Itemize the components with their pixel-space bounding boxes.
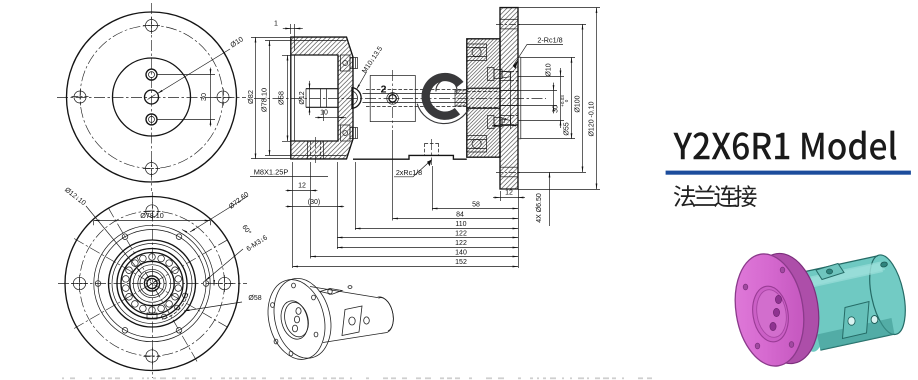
svg-text:0: 0 <box>564 99 569 102</box>
C logo watermark <box>422 73 464 120</box>
end cap <box>863 252 911 338</box>
dim 10 cavity depth <box>315 117 323 119</box>
shaft collar left of rotor <box>455 90 467 106</box>
svg-text:122: 122 <box>455 231 467 238</box>
label 2-Rc1/8 <box>513 45 563 67</box>
svg-text:M8X1.25P: M8X1.25P <box>254 167 289 176</box>
svg-text:2-Rc1/8: 2-Rc1/8 <box>537 36 562 45</box>
side plate <box>843 302 870 339</box>
bearing inner race <box>130 261 174 305</box>
anti-rotation tab <box>147 313 157 319</box>
chain 152 <box>293 266 518 268</box>
svg-text:84: 84 <box>456 211 464 218</box>
angle 60 <box>182 230 214 286</box>
dia12 dim in cavity <box>309 81 311 89</box>
iso end cap arc <box>379 298 394 331</box>
shaft bore <box>144 276 159 291</box>
svg-text:30: 30 <box>553 105 560 113</box>
left vertical dims <box>251 37 291 39</box>
shaft between housing and rotor <box>363 93 467 95</box>
leader dia12 depth 10 <box>86 206 142 274</box>
M8 port slot in bottom band <box>308 141 324 159</box>
svg-text:Ø78.10: Ø78.10 <box>260 88 269 112</box>
centerline horizontal <box>57 97 246 99</box>
main centerline <box>254 98 546 100</box>
view B: rear bearing-side circular view <box>58 187 269 378</box>
flange plate hatched <box>500 8 518 189</box>
svg-text:Ø58: Ø58 <box>277 91 286 105</box>
svg-text:12: 12 <box>505 190 513 197</box>
dim 12 flange thickness (left) <box>292 162 294 268</box>
flange outer circle <box>67 12 237 182</box>
small isometric outline drawing <box>260 272 393 365</box>
blue divider rule <box>666 171 911 175</box>
svg-text:110: 110 <box>455 221 466 228</box>
body outline edges <box>804 256 895 350</box>
step circle <box>112 244 192 324</box>
nozzle fitting top <box>488 68 511 81</box>
dim 30 vertical <box>158 74 216 76</box>
bolt holes x4 <box>146 205 158 217</box>
bearing balls x18 <box>175 276 182 283</box>
svg-text:12: 12 <box>298 183 306 190</box>
iso bolt holes <box>292 283 296 288</box>
dim 1 top <box>290 24 292 34</box>
svg-text:Ø120 -0.10: Ø120 -0.10 <box>589 101 596 136</box>
rotor block hatched <box>467 39 500 157</box>
subtitle 法兰连接 <box>674 185 757 207</box>
retainer dashed arc <box>162 294 188 320</box>
cavity top/bottom thin lines <box>291 40 347 42</box>
svg-text:58: 58 <box>472 201 480 208</box>
right flange dims <box>518 7 600 9</box>
flange rim thickness <box>744 249 827 369</box>
chain 58 <box>432 166 434 211</box>
rotor center bore white <box>467 88 500 108</box>
svg-text:1: 1 <box>274 21 278 28</box>
brush gland top <box>341 55 351 71</box>
Rc1/8 hidden thread <box>424 143 426 155</box>
svg-text:4X Ø6.50: 4X Ø6.50 <box>536 193 543 223</box>
view A: front flange circular view <box>57 3 246 191</box>
diagonal centerlines <box>74 239 230 329</box>
right 12 dim (flange) <box>500 191 502 201</box>
svg-text:Ø55: Ø55 <box>564 122 571 135</box>
top plate <box>816 264 844 280</box>
port hole top <box>146 69 157 80</box>
iso 3 holes <box>296 308 301 315</box>
svg-text:140: 140 <box>455 249 467 256</box>
port block (2) <box>370 76 415 122</box>
iso side port <box>364 317 370 324</box>
svg-text:Ø12: Ø12 <box>299 91 306 104</box>
shaft hole in right wall <box>306 89 338 107</box>
3 holes <box>775 295 781 303</box>
svg-text:10: 10 <box>320 110 328 117</box>
chain 84 <box>392 130 394 221</box>
iso cylinder body <box>310 287 377 298</box>
center hole <box>145 90 159 104</box>
section view stator housing <box>291 37 353 159</box>
port hole on block <box>387 93 399 105</box>
bottom profile of mid tube <box>353 155 467 159</box>
svg-text:152: 152 <box>455 259 467 266</box>
outer circle <box>65 197 239 371</box>
bearing top <box>467 44 487 60</box>
M10 radial port boss on shaft <box>352 88 361 109</box>
circle dia78.10 <box>94 225 210 341</box>
bolt circle <box>80 26 223 169</box>
centerline vertical <box>151 3 153 191</box>
centerline vertical <box>152 192 154 378</box>
centerline horizontal <box>58 283 247 285</box>
bottom shading band <box>817 318 894 350</box>
leader 6-M3 <box>205 249 243 281</box>
svg-text:Ø10: Ø10 <box>546 63 553 76</box>
dim (30) <box>337 162 339 249</box>
flange port holes <box>500 72 510 81</box>
top highlight band <box>806 262 884 289</box>
iso inner boss <box>277 298 312 342</box>
flange bolt hole gaps <box>500 19 518 29</box>
bearing outer race <box>117 249 187 319</box>
small hole on top right <box>880 261 888 267</box>
rivets <box>175 305 180 310</box>
3d render: teal cylinder body <box>783 269 829 354</box>
brush gland bottom <box>341 125 351 141</box>
svg-text:30: 30 <box>199 93 208 101</box>
bolt holes x4 <box>146 20 158 32</box>
flange front face <box>728 249 812 371</box>
M3 screw holes x6 <box>203 281 209 287</box>
hub circles <box>138 269 166 297</box>
leader dia72.60 <box>190 196 248 232</box>
chain 122b <box>337 247 518 249</box>
svg-text:2xRc1/8: 2xRc1/8 <box>396 168 422 177</box>
boss dia55 right face <box>518 57 521 139</box>
leader dia10 <box>158 49 231 94</box>
svg-text:Ø78.10: Ø78.10 <box>140 211 164 220</box>
cavity left open edges <box>290 55 292 141</box>
bearing bottom <box>467 136 487 152</box>
boss circle <box>113 58 191 136</box>
iso flange face <box>260 274 333 366</box>
flange recess <box>749 284 792 345</box>
title Y2X6R1 Model <box>673 131 896 160</box>
circle dia58 <box>109 240 196 327</box>
chain 122a <box>337 237 518 239</box>
label 2xRc1/8 <box>394 160 432 177</box>
svg-text:Ø58: Ø58 <box>248 295 261 302</box>
port hole bottom <box>146 114 157 125</box>
dim dia78.10 <box>93 221 95 226</box>
svg-text:(30): (30) <box>308 199 320 206</box>
counterbore 1mm step <box>294 55 296 141</box>
bolt circle <box>80 211 225 356</box>
bolt holes on rim <box>780 267 785 273</box>
leader M10 depth 13.5 <box>357 72 367 90</box>
dim 7 nozzle <box>492 125 500 127</box>
svg-text:2: 2 <box>381 84 387 96</box>
leader dia58 <box>184 302 242 311</box>
svg-text:7: 7 <box>503 118 507 125</box>
screw circle dia72.60 <box>98 230 206 338</box>
svg-text:Ø82: Ø82 <box>246 90 255 104</box>
nozzle fitting bottom <box>488 116 511 129</box>
iso top plate <box>320 289 342 295</box>
faint cropped text bottom <box>62 377 652 379</box>
iso side plate <box>342 306 362 336</box>
chain 140 <box>310 256 518 258</box>
svg-text:Ø100: Ø100 <box>575 95 582 112</box>
chain 110 <box>355 162 357 230</box>
svg-text:122: 122 <box>455 240 467 247</box>
top highlight band <box>806 263 885 288</box>
flange center hole <box>500 91 518 106</box>
